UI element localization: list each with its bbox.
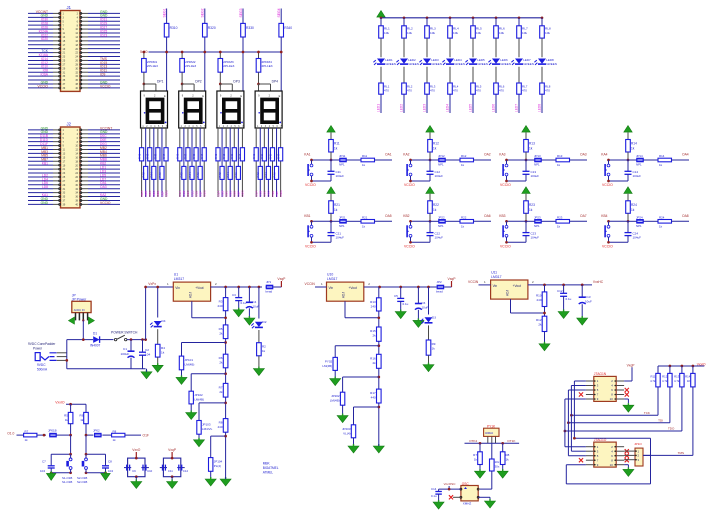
power VCC arrow (S6) — [426, 187, 434, 201]
LED LED3 — [419, 58, 441, 83]
svg-text:VccOSC: VccOSC — [444, 482, 457, 486]
wire JTAG left routing (upper) — [565, 381, 586, 438]
jumper JP24 — [628, 216, 644, 228]
resistor R44 — [150, 166, 156, 179]
svg-text:NP1: NP1 — [534, 224, 540, 228]
svg-text:0.1u: 0.1u — [431, 494, 437, 498]
DC power connector — [28, 342, 67, 372]
svg-text:R42: R42 — [256, 172, 260, 178]
svg-text:240: 240 — [536, 298, 541, 302]
jumper JP102 — [186, 374, 226, 420]
svg-text:R22: R22 — [461, 216, 467, 220]
svg-text:D1G: D1G — [203, 190, 207, 197]
svg-text:JP02: JP02 — [93, 429, 100, 433]
connector J1 — [28, 5, 120, 91]
resistor R47 — [162, 148, 168, 161]
wire oscillator bus — [465, 439, 520, 444]
net label LED4 — [446, 94, 451, 113]
svg-text:GREEN: GREEN — [408, 62, 419, 66]
resistor R24 pull-up — [626, 201, 637, 222]
power VCC arrow (S2) — [426, 126, 434, 140]
wire VxPx riser — [144, 282, 173, 339]
net labels segments DS1 — [140, 190, 168, 197]
svg-text:C3: C3 — [232, 293, 236, 297]
svg-text:R7: R7 — [219, 385, 223, 389]
input network O1F — [85, 429, 149, 443]
svg-text:OA2: OA2 — [484, 153, 491, 157]
svg-text:LM(4B): LM(4B) — [194, 398, 204, 402]
capacitor C13 — [523, 160, 540, 181]
resistor RL6a — [494, 16, 505, 57]
svg-text:+Vout: +Vout — [513, 284, 521, 288]
svg-text:JTAG1N: JTAG1N — [594, 372, 607, 376]
svg-text:IN4007: IN4007 — [90, 344, 101, 348]
svg-text:R13: R13 — [529, 142, 535, 146]
svg-text:S2-O1B: S2-O1B — [77, 480, 87, 484]
svg-text:OA5: OA5 — [385, 214, 392, 218]
svg-text:TDI: TDI — [658, 418, 663, 422]
net labels segments DS2 — [178, 190, 206, 197]
svg-text:R23: R23 — [557, 216, 563, 220]
svg-text:IO9: IO9 — [100, 73, 105, 77]
resistor RL5b — [471, 83, 482, 94]
resistor R125 — [230, 148, 236, 161]
resistor R122 — [218, 166, 224, 179]
svg-text:R12: R12 — [461, 154, 467, 158]
svg-text:D3: D3 — [432, 316, 436, 320]
net labels segments DS4 — [255, 190, 283, 197]
capacitor C13 — [577, 285, 592, 325]
svg-text:O1.0: O1.0 — [7, 432, 14, 436]
svg-text:R46: R46 — [272, 172, 276, 178]
net label LED7 — [515, 94, 520, 113]
power port VxqP (U10 out) — [447, 277, 456, 287]
svg-text:R7: R7 — [473, 453, 477, 457]
net TDO — [564, 427, 682, 433]
svg-text:104uF: 104uF — [633, 174, 642, 178]
resistor RL1a — [379, 16, 390, 57]
svg-text:R340: R340 — [284, 26, 292, 30]
svg-text:2k: 2k — [373, 361, 377, 365]
wire to VCCIO (S5) — [305, 241, 331, 248]
resistor R42 — [141, 166, 147, 179]
net label LED2 — [400, 94, 405, 113]
svg-text:GREEN: GREEN — [500, 62, 511, 66]
svg-text:10uF: 10uF — [585, 300, 592, 304]
svg-text:470: 470 — [545, 89, 550, 93]
LED LED1 — [373, 58, 395, 83]
svg-text:R45: R45 — [154, 153, 158, 159]
svg-text:PY02: PY02 — [325, 359, 333, 363]
svg-text:R41: R41 — [214, 153, 218, 159]
svg-text:JP102: JP102 — [194, 393, 203, 397]
svg-text:104: 104 — [108, 469, 113, 473]
svg-text:JP21: JP21 — [339, 216, 346, 220]
net labels segments DS3 — [216, 190, 244, 197]
svg-text:R11: R11 — [334, 142, 340, 146]
svg-text:R8: R8 — [113, 430, 117, 434]
jumper PY02 — [322, 346, 378, 386]
svg-text:R13: R13 — [370, 300, 376, 304]
svg-text:VxqP: VxqP — [627, 363, 636, 367]
svg-text:GND: GND — [41, 201, 49, 205]
svg-text:R10: R10 — [536, 294, 542, 298]
svg-text:R46: R46 — [234, 172, 238, 178]
svg-text:NP1: NP1 — [636, 224, 642, 228]
svg-text:JP23: JP23 — [534, 216, 541, 220]
resistor R320 — [203, 23, 216, 91]
svg-text:470: 470 — [453, 89, 458, 93]
svg-text:ADJ: ADJ — [506, 290, 510, 296]
wire U10 ADJ — [345, 301, 379, 318]
LED LED6 — [488, 58, 510, 83]
svg-text:KA1: KA1 — [304, 153, 310, 157]
svg-text:U11: U11 — [491, 271, 497, 275]
svg-text:0.1u: 0.1u — [566, 297, 572, 301]
svg-text:VCCIN: VCCIN — [468, 280, 479, 284]
resistor RL3b — [425, 83, 436, 94]
node KB2 — [403, 214, 431, 223]
jumper JP13 — [526, 154, 542, 166]
jumper JP202 — [330, 377, 379, 423]
svg-text:10k: 10k — [522, 31, 527, 35]
svg-text:MBK: MBK — [263, 462, 271, 466]
resistor R13b series — [542, 154, 570, 167]
node KB4 — [601, 214, 629, 223]
svg-text:JP202: JP202 — [331, 394, 340, 398]
svg-text:VCCIN: VCCIN — [305, 282, 316, 286]
svg-text:1k: 1k — [433, 147, 437, 151]
svg-text:Vin: Vin — [329, 286, 334, 290]
resistor RL6b — [494, 83, 505, 94]
capacitor C2 104 — [139, 340, 150, 369]
svg-text:GREEN: GREEN — [477, 62, 488, 66]
push button S4 — [605, 160, 610, 181]
push button S8 — [605, 221, 610, 242]
svg-text:1k: 1k — [433, 208, 437, 212]
ferrite bead JP2 — [436, 280, 452, 293]
svg-text:Vin: Vin — [493, 284, 498, 288]
svg-text:R45: R45 — [268, 153, 272, 159]
node KB3 — [499, 214, 527, 223]
jumper JP22 — [430, 216, 446, 228]
LED D2 + resistor R2 — [251, 287, 266, 376]
wire to VCCIO (S7) — [500, 241, 526, 248]
svg-text:VCCIO: VCCIO — [100, 201, 111, 205]
svg-text:PL(4): PL(4) — [214, 464, 221, 468]
connector JTAG1O — [586, 438, 624, 467]
svg-text:LD8: LD8 — [42, 185, 48, 189]
svg-text:Vin: Vin — [175, 286, 180, 290]
resistor R11b series — [347, 154, 375, 167]
svg-text:POWER SWITCH: POWER SWITCH — [111, 331, 138, 335]
power VCC arrow (S7) — [522, 187, 530, 201]
svg-text:GREEN: GREEN — [385, 62, 396, 66]
svg-text:VCCIO: VCCIO — [404, 183, 415, 187]
net label LED6 — [492, 94, 497, 113]
svg-text:0.1u: 0.1u — [403, 302, 409, 306]
svg-text:LM(4B): LM(4B) — [330, 399, 340, 403]
svg-text:OTK2: OTK2 — [469, 439, 477, 443]
svg-text:4.7k: 4.7k — [650, 379, 656, 383]
svg-text:R46: R46 — [158, 172, 162, 178]
svg-text:NP1: NP1 — [534, 163, 540, 167]
svg-text:C4: C4 — [253, 300, 257, 304]
svg-text:R46: R46 — [196, 172, 200, 178]
capacitor C23 — [523, 221, 540, 242]
segment wires DS3 — [218, 128, 242, 197]
svg-text:C2: C2 — [145, 348, 149, 352]
voltage regulator U1 — [173, 273, 210, 302]
wire LED top bus — [381, 17, 542, 19]
net label OA3 — [570, 153, 588, 161]
resistor R165 — [268, 148, 274, 161]
resistor RL8b — [540, 83, 551, 94]
svg-text:R2: R2 — [262, 345, 266, 349]
svg-text:VCCIO: VCCIO — [500, 183, 511, 187]
jumper JP23 — [526, 216, 542, 228]
svg-text:440: 440 — [371, 396, 376, 400]
wire TMS bottom loop — [566, 455, 650, 484]
power VCC arrow (S4) — [624, 126, 632, 140]
svg-text:bead: bead — [266, 290, 273, 294]
svg-text:bead: bead — [436, 290, 443, 294]
resistor R12b series — [446, 154, 474, 167]
diode D1 IN4007 — [90, 332, 114, 348]
svg-text:1K: 1K — [687, 379, 691, 383]
svg-text:10x: 10x — [495, 460, 500, 464]
svg-text:R21: R21 — [334, 203, 340, 207]
7-segment display DS3 — [217, 91, 244, 128]
push button S2 with C8 — [77, 435, 113, 484]
resistor R12 — [662, 366, 672, 423]
svg-text:C12: C12 — [183, 469, 189, 473]
wire to VCCIO (S2) — [404, 180, 430, 187]
svg-text:R14: R14 — [659, 154, 665, 158]
node KA4 — [601, 153, 629, 162]
svg-text:R6: R6 — [80, 414, 84, 418]
svg-text:10k: 10k — [499, 31, 504, 35]
svg-text:R43: R43 — [146, 153, 150, 159]
svg-text:R13: R13 — [557, 154, 563, 158]
svg-text:R47: R47 — [276, 153, 280, 159]
svg-text:VCCIO: VCCIO — [500, 244, 511, 248]
no-connect X JTAG1O right — [625, 449, 629, 462]
power header JP Power — [68, 294, 94, 340]
wire U1 output — [211, 282, 262, 288]
capacitor C6 — [413, 287, 429, 327]
connector J2 — [28, 122, 120, 208]
net label LED8 — [538, 94, 543, 113]
resistor R86 — [196, 166, 202, 179]
svg-text:R44: R44 — [188, 172, 192, 178]
svg-text:100uF: 100uF — [121, 352, 130, 356]
capacitor C12 — [427, 160, 444, 181]
svg-text:DP2: DP2 — [195, 80, 202, 84]
resistor chain U11 — [536, 285, 550, 351]
svg-text:VCCIO: VCCIO — [305, 183, 316, 187]
svg-text:R43: R43 — [184, 153, 188, 159]
svg-text:R22: R22 — [433, 203, 439, 207]
svg-text:JP103: JP103 — [202, 423, 211, 427]
svg-text:GREEN: GREEN — [523, 62, 534, 66]
svg-text:OA6: OA6 — [484, 214, 491, 218]
svg-text:DP4: DP4 — [272, 80, 279, 84]
resistor R46 — [158, 166, 164, 179]
LED LED7 — [511, 58, 533, 83]
svg-text:1k: 1k — [529, 147, 533, 151]
svg-text:C6: C6 — [422, 301, 426, 305]
svg-text:470: 470 — [407, 89, 412, 93]
LED D3 + resistor R9 — [421, 287, 436, 372]
resistor RL7b — [517, 83, 528, 94]
svg-text:R42: R42 — [180, 172, 184, 178]
svg-text:KB4: KB4 — [601, 214, 607, 218]
LED LED4 — [442, 58, 464, 83]
jumper JP104 — [205, 436, 225, 486]
no-connect X on OSC pin2 — [449, 495, 461, 499]
resistor RP4 (decimal point) — [256, 51, 273, 84]
resistor R45 — [154, 148, 160, 161]
net label OA8 — [672, 214, 690, 222]
svg-text:2k: 2k — [373, 334, 377, 338]
svg-text:JP14: JP14 — [636, 154, 643, 158]
svg-text:KB3: KB3 — [499, 214, 505, 218]
svg-text:OT1K: OT1K — [507, 439, 516, 443]
svg-text:30x: 30x — [495, 465, 500, 469]
svg-text:10k: 10k — [545, 31, 550, 35]
wire to VCCIO (S8) — [602, 241, 628, 248]
power VCC arrow (S5) — [327, 187, 335, 201]
svg-text:240: 240 — [371, 304, 376, 308]
resistor R340 — [279, 23, 292, 91]
net label VCCIN (U10) — [305, 282, 327, 287]
svg-text:R42: R42 — [141, 172, 145, 178]
connector JP1O — [624, 442, 650, 466]
svg-text:1k: 1k — [334, 147, 338, 151]
svg-text:TMS: TMS — [678, 451, 684, 455]
svg-text:R8: R8 — [506, 453, 510, 457]
svg-text:TCK: TCK — [644, 411, 650, 415]
svg-text:R47: R47 — [238, 153, 242, 159]
resistor R84 — [188, 166, 194, 179]
capacitor C5 — [394, 287, 409, 319]
push button S2 — [407, 160, 412, 181]
svg-text:GREEN: GREEN — [454, 62, 465, 66]
svg-text:R310: R310 — [170, 26, 178, 30]
resistor R21 pull-up — [329, 201, 340, 222]
svg-text:JP1O: JP1O — [634, 442, 642, 446]
pull-up resistors R5 R6 — [55, 401, 88, 436]
net label OA7 — [570, 214, 588, 222]
svg-text:470: 470 — [384, 89, 389, 93]
svg-text:S1-O1B: S1-O1B — [62, 480, 72, 484]
net TCK — [570, 411, 658, 417]
resistor R13 — [674, 366, 684, 431]
voltage regulator U11 — [491, 271, 528, 300]
svg-text:104: 104 — [40, 469, 45, 473]
svg-text:LM4/VL: LM4/VL — [202, 427, 213, 431]
push button S1 — [308, 160, 313, 181]
svg-text:R16: R16 — [370, 356, 376, 360]
net label LED1 — [377, 94, 382, 113]
svg-text:O1F: O1F — [143, 434, 149, 438]
svg-text:470: 470 — [522, 89, 527, 93]
svg-text:10k: 10k — [476, 31, 481, 35]
resistor RP3 (decimal point) — [218, 51, 235, 84]
svg-text:D4: D4 — [162, 319, 166, 323]
svg-text:LED8: LED8 — [538, 104, 542, 112]
svg-text:R14: R14 — [631, 142, 637, 146]
resistor RL2b — [402, 83, 413, 94]
segment wires DS4 — [256, 128, 280, 197]
svg-text:9VDC: 9VDC — [37, 363, 46, 367]
svg-text:NP1: NP1 — [339, 224, 345, 228]
svg-text:R17: R17 — [370, 391, 376, 395]
decoupling caps C9 C10 — [124, 448, 153, 488]
svg-text:TDO: TDO — [668, 427, 675, 431]
svg-text:C7: C7 — [42, 460, 46, 464]
svg-text:VCCIO: VCCIO — [404, 244, 415, 248]
resistor RL8a — [540, 16, 551, 57]
svg-text:2PL1E3: 2PL1E3 — [147, 64, 158, 68]
svg-text:R44: R44 — [226, 172, 230, 178]
svg-text:GREEN: GREEN — [546, 62, 557, 66]
svg-text:10k: 10k — [384, 31, 389, 35]
resistor R81 — [176, 148, 182, 161]
oscillator OSC — [460, 482, 479, 506]
resistor R12 pull-up — [428, 140, 439, 161]
svg-text:JP11: JP11 — [339, 154, 346, 158]
svg-text:JP1: JP1 — [266, 280, 272, 284]
capacitor C12 — [557, 285, 572, 319]
wire to VCCIO (S1) — [305, 180, 331, 187]
resistor R22b series — [446, 216, 474, 229]
svg-text:JP22: JP22 — [438, 216, 445, 220]
svg-text:KB1: KB1 — [42, 162, 48, 166]
node KB1 — [304, 214, 332, 223]
wire U10 output — [364, 282, 437, 288]
push button S5 — [308, 221, 313, 242]
resistor R43 — [146, 148, 152, 161]
capacitor C22 — [427, 221, 444, 242]
svg-text:LED6: LED6 — [492, 104, 496, 112]
svg-text:VxxHC: VxxHC — [593, 280, 604, 284]
resistor R87 — [200, 148, 206, 161]
svg-text:DP1: DP1 — [157, 80, 164, 84]
net label OA5 — [375, 214, 393, 222]
resistor RP1 (decimal point) — [142, 51, 159, 84]
svg-text:R5: R5 — [219, 327, 223, 331]
svg-text:2PL1E3: 2PL1E3 — [185, 64, 196, 68]
input network O1.0 — [7, 429, 72, 443]
push button S1 with C7 — [40, 435, 72, 484]
svg-text:R41: R41 — [252, 153, 256, 159]
jumper JP101 — [176, 343, 226, 385]
svg-text:VCCIO: VCCIO — [305, 244, 316, 248]
svg-text:OA1: OA1 — [385, 153, 392, 157]
svg-text:JP101: JP101 — [185, 358, 194, 362]
svg-text:LM(4B): LM(4B) — [185, 363, 195, 367]
svg-text:DP3: DP3 — [233, 80, 240, 84]
component PY1K — [484, 424, 499, 443]
svg-text:ADJ: ADJ — [342, 292, 346, 298]
net label OA4 — [672, 153, 690, 161]
svg-text:R42: R42 — [218, 172, 222, 178]
resistor R24b series — [644, 216, 672, 229]
svg-text:4.7k: 4.7k — [674, 379, 680, 383]
resistor R23b series — [542, 216, 570, 229]
